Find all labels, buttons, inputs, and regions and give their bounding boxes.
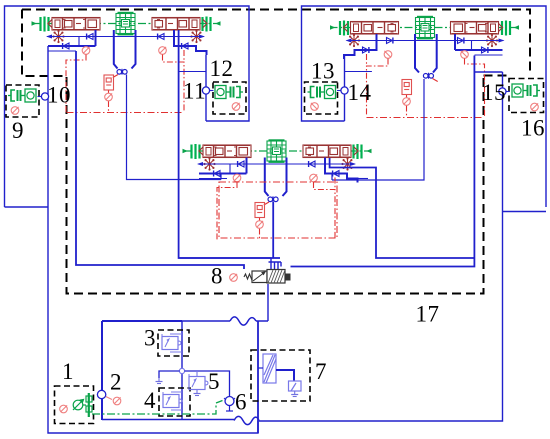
wire: node to coupler 6 — [185, 371, 230, 397]
wire: left main supply down to reservoir box — [48, 46, 258, 433]
svg-text:14: 14 — [348, 80, 372, 105]
valve box 4 (dashed) — [159, 388, 190, 416]
wire: left frame step — [5, 206, 49, 208]
wire: right frame step — [503, 211, 547, 213]
motor-pump 9 — [8, 89, 36, 102]
tank at valve 7 — [291, 391, 298, 397]
gauge in box 9 — [11, 107, 19, 115]
ground/tank — [156, 378, 163, 384]
suction line (green dash-dot) — [92, 401, 223, 415]
wire: left brake line to cylinder 8 left port — [76, 51, 244, 269]
right axle valve assembly (mirrored) — [330, 16, 519, 117]
coupler 6 — [225, 397, 234, 406]
brake system boundary 17 (dashed) — [22, 10, 530, 294]
center axle valve assembly — [183, 139, 372, 240]
svg-text:1: 1 — [62, 359, 74, 384]
tank at valve 5 — [194, 390, 201, 396]
svg-text:12: 12 — [210, 56, 234, 81]
svg-text:3: 3 — [144, 326, 156, 351]
svg-text:17: 17 — [416, 302, 440, 327]
wire: center assembly stub — [358, 178, 369, 180]
svg-text:6: 6 — [235, 390, 247, 415]
svg-text:7: 7 — [315, 359, 327, 384]
svg-text:2: 2 — [110, 370, 122, 395]
brake master cylinder 8 — [244, 270, 291, 322]
relief valve 5 — [189, 374, 208, 390]
svg-text:13: 13 — [311, 59, 335, 84]
node junction — [179, 368, 184, 373]
right test filter chain — [402, 80, 412, 118]
pump unit box 9 (dashed) — [6, 85, 39, 117]
red pilot drain line (dash-dot) — [67, 113, 484, 118]
wire: right brake line to cylinder 8 right port — [291, 56, 475, 267]
gauge in box 16 — [531, 103, 539, 111]
wire: right suction line down — [259, 72, 503, 421]
gauge at coupler 2 — [113, 397, 121, 405]
right frame with box 13 and coupler 14 (mirrored) — [302, 6, 547, 207]
wire: pump box top edge thick — [102, 320, 182, 322]
svg-text:8: 8 — [211, 264, 223, 289]
wire: center assembly right output — [330, 158, 475, 258]
motor-pump 16 — [512, 84, 540, 97]
coupler 10 — [41, 93, 48, 100]
solenoid valve 3 — [162, 334, 181, 350]
svg-text:5: 5 — [208, 369, 220, 394]
wire: pump box left edge — [101, 321, 103, 420]
svg-text:15: 15 — [482, 80, 506, 105]
svg-text:16: 16 — [521, 116, 545, 141]
wire: pump box edges — [102, 321, 268, 420]
red pilot boundary box (dash-dot) — [219, 182, 337, 238]
labels 1-17 — [12, 56, 545, 415]
wire: left brake line to cylinder 8 bus — [179, 30, 280, 258]
valve box 3 (dashed) — [158, 330, 189, 356]
wire: center coupler drop — [272, 202, 274, 258]
svg-text:10: 10 — [47, 83, 71, 108]
supply unit box 1 (dashed) — [55, 386, 94, 424]
svg-text:4: 4 — [144, 388, 156, 413]
svg-text:9: 9 — [12, 118, 24, 143]
coupler 2 — [97, 390, 105, 398]
hose: flexible section bottom — [234, 416, 259, 424]
wire: return line through box 7 — [257, 321, 259, 433]
pump unit box 16 (dashed) — [509, 79, 544, 113]
hand pump 1 (green) — [73, 393, 92, 417]
wire: right coupler drop line — [332, 79, 424, 180]
filter unit box 7 (dashed) — [251, 350, 310, 401]
solenoid valve 4 — [163, 392, 182, 408]
gauge in box 1 — [60, 405, 68, 413]
gauge at cylinder 8 — [230, 274, 238, 282]
hose: flexible section top — [230, 317, 256, 325]
left test filter chain — [104, 75, 114, 113]
coupler 15 — [499, 88, 506, 95]
wire: node to tank — [159, 371, 180, 378]
left axle brake unit (assembly + frame + box 12 + coupler 11) — [5, 6, 250, 207]
filter 7 with valve — [258, 354, 301, 391]
wire: cylinder 8 inlet bus and stubs — [179, 258, 281, 269]
svg-text:11: 11 — [183, 79, 206, 104]
wire: link to coupler 15 — [474, 71, 502, 73]
wire: left coupler drop line — [127, 75, 222, 180]
